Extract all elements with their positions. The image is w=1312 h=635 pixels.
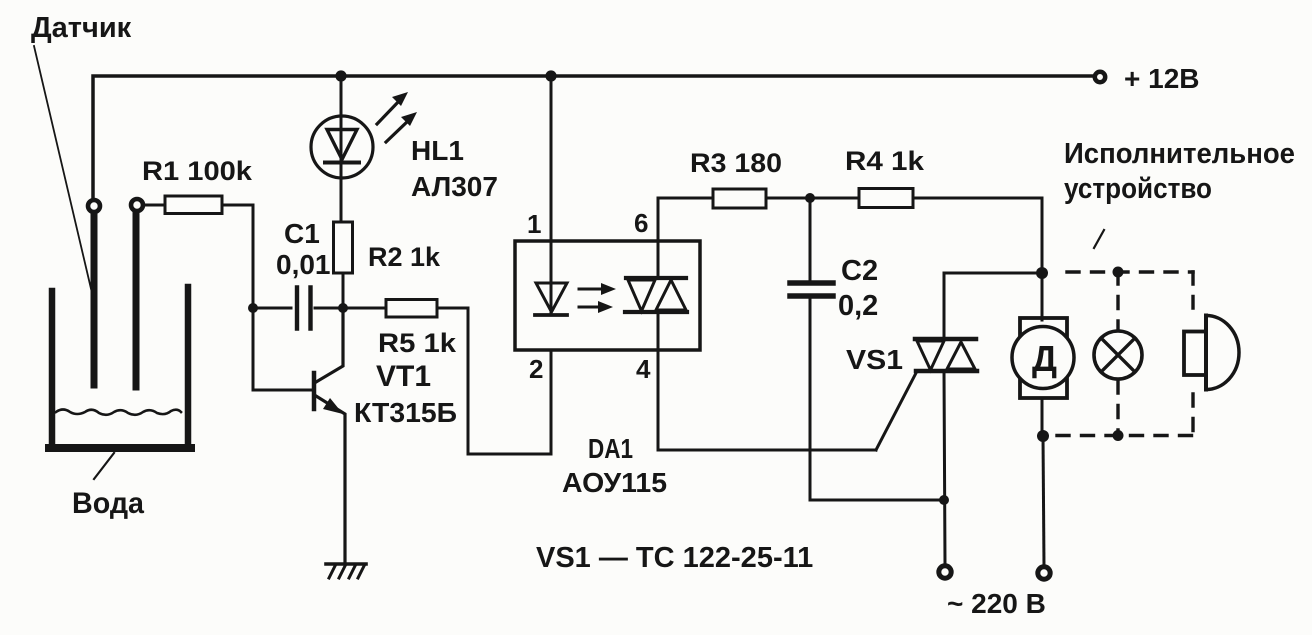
wire +12V rail from sensor terminal to supply terminal	[93, 76, 1092, 199]
wire C1 to node base-R2	[315, 307, 343, 310]
dashed box top	[1067, 270, 1193, 273]
transistor VT1 base bar	[312, 373, 317, 409]
wire R5 to pin 2	[437, 308, 551, 454]
node lamp top	[1113, 267, 1124, 278]
sensor terminal A	[88, 200, 100, 212]
svg-text:2: 2	[529, 354, 543, 384]
ground	[326, 562, 366, 566]
opto triac bottom bar	[625, 310, 687, 314]
triac VS1 right triangle	[947, 342, 975, 369]
svg-text:Вода: Вода	[72, 487, 144, 520]
dashed box bottom	[1057, 434, 1193, 437]
bell body rect	[1184, 332, 1206, 376]
terminal +12V	[1095, 72, 1105, 82]
LED HL1 triangle	[327, 130, 357, 160]
wire R2 bottom to node	[342, 273, 345, 308]
bell dome	[1206, 316, 1239, 390]
node R3 R4 C2	[805, 193, 815, 203]
pin 4 wire	[658, 350, 876, 450]
svg-text:1: 1	[527, 209, 541, 239]
wire VS1 cathode down to terminal	[944, 371, 945, 564]
beaker (water container)	[52, 287, 188, 444]
wire R3 to node	[766, 197, 859, 200]
bell flat edge	[1204, 316, 1208, 390]
resistor R3	[713, 189, 766, 208]
svg-text:DA1: DA1	[588, 433, 633, 464]
node lamp bottom	[1113, 430, 1124, 441]
svg-text:VS1: VS1	[846, 344, 903, 375]
svg-text:Датчик: Датчик	[31, 12, 132, 44]
svg-text:устройство: устройство	[1064, 173, 1212, 205]
resistor R2	[334, 222, 353, 273]
pin 1 wire	[550, 76, 553, 241]
optocoupler DA1 box	[515, 241, 700, 350]
dashed box right lower	[1191, 394, 1194, 436]
opto LED cathode bar	[535, 313, 567, 317]
node rail-HL1	[335, 70, 346, 81]
node right branch top	[1036, 267, 1048, 279]
transistor VT1 collector	[316, 308, 343, 382]
node C1 right / R2 bottom	[338, 303, 348, 313]
transistor VT1 emitter	[316, 396, 345, 563]
svg-text:4: 4	[636, 354, 651, 384]
node rail-pin1	[545, 70, 556, 81]
motor frame	[1020, 318, 1067, 398]
dashed box right upper	[1191, 272, 1194, 308]
resistor R5	[386, 300, 437, 318]
LED HL1 circle	[311, 116, 373, 178]
opto LED triangle	[536, 283, 567, 312]
svg-text:КТ315Б: КТ315Б	[354, 397, 457, 428]
opto triac top bar	[626, 276, 686, 280]
svg-text:R2 1k: R2 1k	[368, 242, 441, 272]
svg-text:R3 180: R3 180	[690, 148, 782, 178]
capacitor C2 lead top	[809, 198, 812, 281]
sensor electrode A	[91, 214, 98, 385]
wire node to C1	[253, 307, 291, 310]
wire C2 bottom to VS1 cathode	[810, 499, 944, 502]
transistor VT1 emitter arrow	[323, 398, 343, 414]
node right branch bottom	[1037, 430, 1049, 442]
svg-text:АОУ115: АОУ115	[562, 467, 667, 498]
capacitor C1	[295, 288, 299, 329]
resistor R1	[165, 196, 222, 214]
wire base of VT1	[253, 308, 311, 390]
triac VS1 top bar	[915, 337, 976, 342]
leader line to Вода	[94, 453, 114, 479]
svg-text:+ 12В: + 12В	[1124, 63, 1200, 94]
LED HL1 cathode bar	[325, 161, 359, 165]
LED arrow 2	[386, 120, 409, 142]
capacitor C2 lead bottom	[809, 298, 812, 500]
dashed lamp branch top	[1116, 272, 1119, 333]
wire VS1 anode up	[944, 273, 1042, 339]
svg-text:C1: C1	[284, 218, 320, 249]
capacitor C2	[790, 280, 833, 286]
svg-text:R1 100k: R1 100k	[142, 156, 253, 186]
node VS1 cathode	[939, 495, 949, 505]
leader line from Датчик to sensor electrode	[34, 46, 96, 310]
lamp HL	[1094, 331, 1142, 379]
resistor R4	[859, 189, 913, 208]
water level	[56, 410, 181, 415]
svg-text:VS1 — ТС 122-25-11: VS1 — ТС 122-25-11	[536, 542, 813, 574]
pin 6 wire to R3	[658, 198, 713, 241]
svg-text:VT1: VT1	[376, 360, 431, 393]
wire bottom node to terminal	[1043, 436, 1044, 566]
opto triac top lead	[657, 241, 660, 278]
LED arrow 1	[377, 100, 400, 124]
node C1 left	[248, 303, 258, 313]
wire node to R5	[343, 307, 386, 310]
dashed lamp branch bottom	[1116, 381, 1119, 436]
VS1 gate diagonal	[876, 373, 916, 450]
triac VS1 left triangle	[917, 341, 944, 370]
svg-text:R4 1k: R4 1k	[845, 146, 925, 176]
opto triac left triangle	[628, 280, 655, 311]
svg-text:HL1: HL1	[411, 135, 464, 166]
opto arrow 1	[579, 288, 603, 291]
sensor terminal B	[131, 199, 143, 211]
motor circle	[1012, 327, 1074, 389]
svg-text:~ 220 В: ~ 220 В	[947, 588, 1046, 619]
opto triac bottom lead	[657, 312, 660, 350]
svg-text:C2: C2	[841, 255, 878, 287]
terminal ~220V left	[939, 566, 951, 578]
svg-text:0,2: 0,2	[838, 290, 878, 322]
svg-text:АЛ307: АЛ307	[411, 171, 498, 202]
wire R1 to node C1-left	[222, 205, 253, 303]
svg-text:Исполнительное: Исполнительное	[1064, 138, 1295, 170]
leader tick to dashed box	[1094, 230, 1104, 248]
wire node to motor	[1041, 273, 1044, 320]
terminal ~220V right	[1038, 567, 1050, 579]
triac VS1 bottom bar	[916, 369, 977, 374]
wire R1 left lead	[144, 204, 165, 207]
svg-text:Д: Д	[1032, 338, 1057, 379]
opto arrow 2	[579, 306, 600, 309]
opto LED lead	[550, 241, 553, 313]
sensor electrode B	[133, 213, 140, 387]
wire HL1 anode + through LED to R2	[340, 76, 343, 222]
svg-text:R5 1k: R5 1k	[378, 328, 457, 358]
wire R4 to right branch	[913, 198, 1042, 268]
svg-text:6: 6	[634, 208, 648, 238]
svg-text:0,01: 0,01	[276, 249, 331, 280]
wire motor to bottom node	[1041, 398, 1044, 435]
opto triac right triangle	[656, 280, 686, 310]
